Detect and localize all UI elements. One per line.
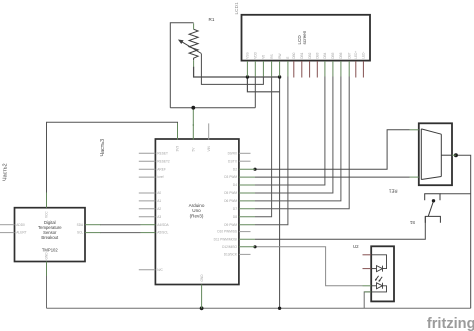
svg-text:A1: A1	[157, 199, 161, 203]
optocoupler U2 internal wiring	[371, 255, 386, 292]
wire 3V3 from Arduino to sensor VCC	[47, 122, 178, 192]
svg-text:DB2: DB2	[308, 52, 312, 58]
wire R1 wiper to LCD V0	[201, 54, 263, 85]
svg-text:DB1: DB1	[300, 52, 304, 58]
svg-text:DB0: DB0	[292, 52, 296, 58]
Arduino left pin RESET2 leg unconnected	[139, 160, 156, 162]
node LCD RW junction	[278, 75, 281, 78]
optocoupler U2 pin4 leg	[364, 291, 371, 293]
svg-text:VCC: VCC	[45, 211, 49, 218]
relay RE1 left top leg	[410, 129, 419, 131]
Arduino left pin A3 leg unconnected	[139, 216, 156, 218]
wire LCD DB6 to Arduino D6	[255, 77, 341, 201]
Arduino right pin D10 leg unconnected	[239, 231, 251, 233]
svg-text:D2: D2	[233, 167, 237, 171]
node switch S1 contact dot	[432, 199, 435, 202]
wire Arduino D11 to switch S1	[255, 216, 425, 239]
relay RE1 label rotated 180	[388, 189, 397, 194]
TMP102 pin labels	[16, 211, 84, 260]
Arduino right pin D5 leg	[239, 192, 255, 194]
optocoupler U2 LED diode	[377, 266, 383, 272]
optocoupler U2 light arrows	[375, 276, 382, 282]
TMP102 title	[38, 220, 62, 253]
Arduino left pin N/C leg unconnected	[139, 269, 156, 271]
svg-text:GND: GND	[200, 274, 204, 282]
relay RE1 box	[419, 123, 452, 185]
wire sensor SDA to Arduino A4	[100, 224, 141, 226]
Arduino right pin labels	[214, 151, 238, 256]
Arduino right pin D13 leg unconnected	[239, 253, 251, 255]
R1 bottom pin leg	[193, 60, 195, 67]
svg-text:Часть3: Часть3	[100, 139, 106, 157]
Arduino left pin A1 leg unconnected	[139, 200, 156, 202]
LCD pin 9 DB2 leg unconnected	[309, 61, 311, 78]
LCD pin 13 DB6 leg	[340, 61, 342, 77]
svg-text:A2: A2	[157, 207, 161, 211]
wire relay RE1 output to right-side vertical	[456, 155, 471, 308]
wire LCD RW drop to ground rail	[279, 77, 281, 308]
optocoupler U2 box	[371, 246, 394, 301]
svg-text:D12/MISO: D12/MISO	[222, 245, 237, 249]
wire LCD E to Arduino D9	[255, 77, 288, 225]
Arduino title	[189, 203, 205, 218]
Arduino left pin RESET leg unconnected	[139, 152, 156, 154]
svg-text:D8: D8	[233, 215, 237, 219]
switch S1 label rotated 180	[409, 220, 415, 225]
potentiometer R1	[181, 29, 201, 60]
node Arduino GND junction on rail	[200, 306, 204, 310]
node LCD ground drop junction on rail	[278, 307, 281, 310]
svg-text:D11 PWM/MOSI: D11 PWM/MOSI	[214, 237, 237, 241]
Arduino left pin A0 leg unconnected	[139, 192, 156, 194]
svg-text:A5/SCL: A5/SCL	[157, 231, 168, 235]
svg-text:SDA: SDA	[77, 223, 84, 227]
svg-text:Breakout: Breakout	[41, 235, 59, 240]
svg-text:RESET: RESET	[157, 151, 168, 155]
Arduino right pin D3 leg	[239, 176, 255, 178]
svg-text:A0: A0	[157, 191, 161, 195]
wire LCD DB4 to Arduino D4	[255, 77, 325, 186]
wire ground rail along bottom	[47, 307, 471, 309]
Arduino left pin A5/SCL leg	[141, 232, 156, 234]
node Arduino D2 bendpoint	[253, 168, 256, 171]
svg-text:3V3: 3V3	[176, 146, 180, 152]
svg-text:DB5: DB5	[331, 52, 335, 58]
TMP102 ALERT leg unconnected	[0, 232, 15, 234]
svg-text:ADD0: ADD0	[16, 223, 25, 227]
svg-text:SCL: SCL	[77, 231, 83, 235]
svg-text:DB3: DB3	[316, 52, 320, 58]
node 5V junction	[191, 106, 195, 110]
LCD pin 3 V0 leg	[262, 61, 264, 77]
svg-text:RESET2: RESET2	[157, 159, 170, 163]
Arduino left pin labels	[157, 151, 170, 271]
wire LCD RS to Arduino D8	[255, 77, 272, 217]
svg-text:ioref: ioref	[157, 175, 163, 179]
node LCD VSS junction	[246, 75, 249, 78]
svg-text:LCD1: LCD1	[234, 2, 240, 15]
wire 5V rail horizontal	[170, 107, 255, 109]
svg-text:N/C: N/C	[157, 268, 163, 272]
wire Arduino D2 to relay RE1 top pin	[255, 130, 410, 169]
LCD pin labels	[246, 51, 366, 59]
Arduino right pin D8 leg	[239, 216, 255, 218]
LCD pin 12 DB5 leg	[332, 61, 334, 77]
Arduino left pin ioref leg unconnected	[139, 176, 156, 178]
relay RE1 right leg	[452, 154, 456, 156]
LCD pin 8 DB1 leg unconnected	[301, 61, 303, 78]
wire Arduino D3 to relay RE1 bottom pin	[255, 176, 410, 178]
LCD pin 7 DB0 leg unconnected	[293, 61, 295, 78]
optocoupler U2 pin2 leg unconnected	[363, 268, 372, 270]
svg-text:D13/SCK: D13/SCK	[224, 253, 238, 257]
wire R1 bottom to LCD VSS/RW row	[194, 67, 280, 77]
svg-text:D10 PWM/SS: D10 PWM/SS	[217, 230, 237, 234]
Arduino top pin 3V3 leg	[177, 123, 179, 140]
svg-text:(Rev3): (Rev3)	[190, 213, 204, 218]
Arduino left pin AREF leg unconnected	[139, 168, 156, 170]
svg-text:A4/SDA: A4/SDA	[157, 223, 169, 227]
svg-text:LED-: LED-	[362, 52, 366, 59]
temperature sensor U3 TMP102 box	[15, 208, 86, 262]
svg-text:D7: D7	[233, 207, 237, 211]
svg-text:A3: A3	[157, 215, 161, 219]
Arduino top pin 5V leg	[192, 124, 194, 140]
R1 top pin leg	[193, 23, 195, 29]
Arduino U1 box	[155, 139, 239, 285]
Arduino right pin D1/TX leg unconnected	[239, 160, 251, 162]
Arduino right pin D11 leg	[239, 238, 255, 240]
svg-text:D9 PWM: D9 PWM	[224, 223, 237, 227]
svg-text:D6 PWM: D6 PWM	[224, 199, 237, 203]
wire switch S1 top to right-side vertical	[440, 193, 471, 195]
optocoupler U2 pin3 leg	[363, 285, 372, 287]
svg-text:D3 PWM: D3 PWM	[224, 175, 237, 179]
Arduino left pin A2 leg unconnected	[139, 208, 156, 210]
Arduino right pin D6 leg	[239, 200, 255, 202]
svg-text:S1: S1	[409, 220, 415, 225]
svg-text:DB4: DB4	[323, 52, 327, 58]
optocoupler U2 pin1 leg unconnected	[363, 254, 372, 256]
wire sensor SCL to Arduino A5	[100, 232, 141, 234]
potentiometer R1 wiper arrowhead	[178, 40, 184, 45]
note label part2	[2, 163, 8, 181]
svg-text:RE1: RE1	[388, 189, 397, 194]
optocoupler U2 photodiode	[377, 283, 383, 289]
svg-text:LED+: LED+	[354, 51, 358, 59]
svg-text:AREF: AREF	[157, 167, 166, 171]
Arduino right pin D2 leg	[239, 168, 255, 170]
TMP102 VCC leg	[46, 193, 48, 208]
LCD pin 10 DB3 leg unconnected	[316, 61, 318, 78]
LCD pin 14 DB7 leg	[348, 61, 350, 77]
LCD pin 5 RW leg	[279, 61, 281, 77]
svg-text:RS: RS	[270, 54, 274, 58]
TMP102 ADD0 leg unconnected	[0, 224, 15, 226]
wire sensor GND down to ground rail	[46, 276, 48, 309]
Arduino right pin D9 leg	[239, 224, 255, 226]
Arduino top pin labels	[176, 145, 211, 281]
note label part3	[100, 139, 106, 157]
Arduino right pin D7 leg	[239, 208, 255, 210]
wire Arduino D12 to optocoupler U2 pin3	[255, 247, 363, 286]
svg-text:D1/TX: D1/TX	[228, 159, 238, 163]
LCD1	[242, 15, 371, 61]
wire LCD DB7 to Arduino D7	[255, 77, 349, 209]
svg-text:ALERT: ALERT	[16, 231, 26, 235]
wire LCD VDD drop to 5V rail	[254, 77, 256, 108]
wire LCD VSS down and across to RW drop	[247, 77, 279, 92]
svg-text:GND: GND	[45, 252, 49, 260]
svg-text:fritzing: fritzing	[427, 316, 474, 331]
TMP102 SCL leg	[85, 232, 101, 234]
Arduino right pin D0/RX leg unconnected	[239, 152, 251, 154]
node Arduino D12 bendpoint	[253, 245, 256, 248]
svg-text:RW: RW	[278, 54, 282, 59]
TMP102 GND leg	[46, 262, 48, 277]
svg-text:V0: V0	[262, 55, 266, 59]
switch S1	[425, 194, 441, 223]
LCD pin 1 VSS leg	[246, 61, 248, 77]
Arduino right pin D12 leg	[239, 246, 255, 248]
svg-text:D5 PWM: D5 PWM	[224, 191, 237, 195]
LCD1 part label	[234, 2, 240, 15]
Arduino left pin A4/SDA leg	[141, 224, 156, 226]
svg-text:DB6: DB6	[339, 52, 343, 58]
svg-text:D0/RX: D0/RX	[228, 151, 238, 155]
Arduino right pin D4 leg	[239, 184, 255, 186]
LCD1 title text	[297, 30, 307, 44]
wire 5V junction down to Arduino 5V pin	[192, 109, 194, 127]
svg-text:VSS: VSS	[246, 52, 250, 58]
LCD pin 4 RS leg	[271, 61, 273, 77]
svg-text:R1: R1	[209, 17, 215, 22]
Arduino top pin VIN leg unconnected	[208, 123, 210, 139]
wire LCD DB5 to Arduino D5	[255, 77, 333, 194]
svg-text:TMP102: TMP102	[42, 248, 58, 253]
LCD pin 16 LED- leg unconnected	[362, 61, 364, 78]
svg-text:DB7: DB7	[347, 52, 351, 58]
wire R1 top to 5V rail (left tall wire)	[170, 23, 193, 108]
svg-text:VDD: VDD	[254, 51, 258, 58]
LCD pin 6 E leg	[287, 61, 289, 77]
Arduino bottom pin GND leg	[201, 285, 203, 309]
svg-text:Часть2: Часть2	[2, 163, 8, 181]
svg-text:E: E	[286, 57, 290, 59]
svg-text:screen: screen	[302, 30, 307, 44]
relay RE1 inner symbol	[421, 129, 452, 180]
LCD pin 11 DB4 leg	[324, 61, 326, 77]
svg-text:U2: U2	[353, 244, 359, 249]
LCD pin 2 VDD leg	[254, 61, 256, 77]
LCD pin 15 LED+ leg unconnected	[355, 61, 357, 78]
svg-text:VIN: VIN	[207, 145, 211, 151]
relay RE1 left bottom leg	[410, 176, 419, 178]
node relay RE1 output junction	[454, 153, 458, 157]
wire U2 pin4 to ground rail	[364, 292, 371, 308]
svg-text:D4: D4	[233, 183, 237, 187]
TMP102 SDA leg	[85, 224, 101, 226]
